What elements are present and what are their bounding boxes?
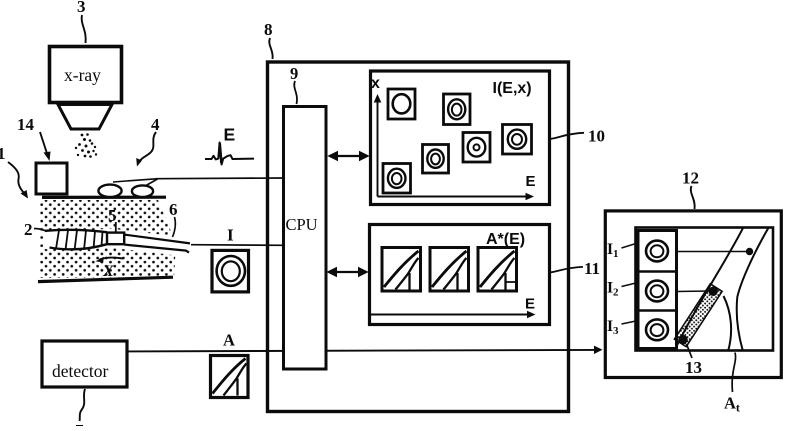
leader 5 — [115, 222, 117, 233]
svg-text:I: I — [227, 226, 234, 245]
svg-text:detector: detector — [52, 361, 109, 381]
svg-text:E: E — [525, 296, 535, 313]
wire E to box 8 — [156, 177, 284, 180]
white corridor for vessel — [44, 238, 190, 248]
svg-text:6: 6 — [169, 200, 178, 219]
box 14 — [36, 163, 67, 194]
collimator — [58, 105, 112, 130]
svg-text:CPU: CPU — [286, 215, 318, 234]
marker 5 box — [107, 233, 124, 245]
leader 11 — [551, 267, 583, 272]
x-ray spray dots — [75, 133, 97, 158]
svg-text:A*(E): A*(E) — [486, 231, 525, 248]
icon A (hatched) — [211, 356, 249, 398]
ECG symbol — [205, 143, 254, 165]
vessel band 2 lower boundary — [50, 244, 108, 249]
electrode leads — [113, 179, 156, 182]
leader 3 — [82, 15, 86, 43]
band rungs — [56, 230, 59, 248]
inner image box — [636, 228, 774, 351]
box 10 — [371, 71, 550, 205]
svg-text:9: 9 — [290, 64, 298, 83]
hatch square 1 in box 11 — [382, 248, 421, 292]
ring squares in box 10 — [383, 89, 532, 193]
tissue stipple region — [40, 200, 176, 278]
arrow CPU to box 11 — [328, 268, 368, 277]
svg-text:E: E — [526, 173, 536, 190]
electrode ellipse right — [132, 185, 153, 197]
arrow CPU to box 10 — [329, 152, 369, 161]
detector stack — [638, 231, 677, 349]
rings inside box 10 squares — [388, 94, 526, 188]
svg-text:I(E,x): I(E,x) — [493, 80, 532, 97]
svg-text:x-ray: x-ray — [64, 65, 101, 85]
svg-text:1: 1 — [0, 144, 6, 163]
leader to 7 — [80, 389, 86, 421]
leader 12 — [691, 186, 695, 209]
electrode ellipse left — [98, 185, 121, 197]
rings inside detector stack cells — [646, 241, 668, 341]
axes box 10 — [377, 99, 379, 197]
vessel band 2 upper boundary — [45, 230, 107, 232]
arrowhead into box 12 — [594, 346, 603, 354]
leader 6 — [173, 217, 176, 237]
svg-text:11: 11 — [584, 259, 600, 278]
box 12 — [605, 211, 781, 378]
svg-text:2: 2 — [24, 220, 33, 239]
svg-text:13: 13 — [685, 358, 702, 377]
svg-text:A: A — [223, 331, 235, 350]
hatched band 13 — [674, 284, 722, 347]
svg-text:X: X — [102, 263, 114, 280]
I2 wire — [677, 290, 710, 293]
svg-text:7: 7 — [75, 421, 84, 426]
vessel curves — [674, 226, 770, 352]
leader 9 — [294, 81, 297, 104]
CPU box 9 — [284, 107, 327, 370]
svg-text:14: 14 — [17, 115, 35, 134]
leader 10 — [551, 133, 584, 139]
tissue bottom line — [38, 277, 173, 281]
svg-text:4: 4 — [151, 115, 160, 134]
leader 1 arrow — [8, 162, 25, 194]
detector box — [42, 341, 127, 387]
catheter tail 6 — [125, 235, 191, 244]
skin surface line — [42, 196, 166, 199]
I1 wire + dot — [677, 251, 747, 253]
E axis box 11 — [371, 314, 529, 316]
wire A detector to box 12 — [128, 350, 597, 352]
wire I to box 8 — [191, 244, 284, 247]
svg-text:12: 12 — [682, 169, 699, 188]
box 8 — [268, 62, 569, 412]
svg-text:E: E — [224, 125, 236, 145]
svg-text:x: x — [371, 75, 380, 92]
leader 4 arrow — [139, 132, 156, 162]
x-ray box 3 — [50, 47, 122, 103]
svg-text:10: 10 — [588, 127, 605, 146]
svg-text:3: 3 — [77, 0, 86, 16]
leader 2 — [34, 229, 47, 232]
box 11 — [370, 225, 550, 325]
hatch square 2 in box 11 — [430, 248, 469, 292]
X motion arrow — [99, 258, 123, 260]
svg-text:8: 8 — [264, 20, 273, 39]
leader 14 arrow — [40, 132, 48, 155]
leader 8 — [269, 38, 272, 59]
icon I (detector image) — [212, 250, 249, 292]
hatch square 3 in box 11 — [478, 248, 517, 292]
